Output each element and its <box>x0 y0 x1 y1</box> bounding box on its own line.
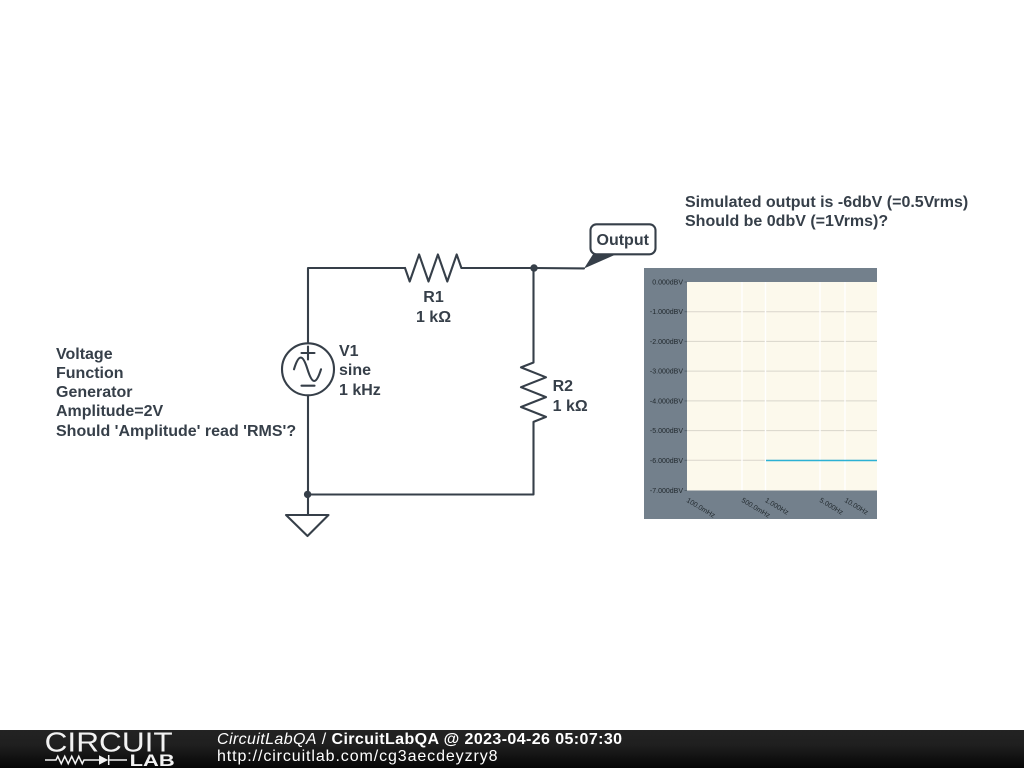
svg-text:-5.000dBV: -5.000dBV <box>650 428 683 435</box>
svg-text:-4.000dBV: -4.000dBV <box>650 398 683 405</box>
svg-text:0.000dBV: 0.000dBV <box>652 280 683 287</box>
svg-text:LAB: LAB <box>130 752 175 768</box>
svg-text:-3.000dBV: -3.000dBV <box>650 369 683 376</box>
svg-text:-2.000dBV: -2.000dBV <box>650 339 683 346</box>
svg-text:-7.000dBV: -7.000dBV <box>650 488 683 495</box>
svg-text:-1.000dBV: -1.000dBV <box>650 309 683 316</box>
svg-text:-6.000dBV: -6.000dBV <box>650 458 683 465</box>
